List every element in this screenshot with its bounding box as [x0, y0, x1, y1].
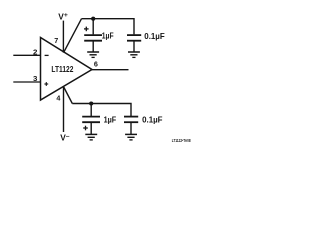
C2 ground lead	[133, 41, 135, 52]
wire: V+ bypass rail	[82, 19, 135, 35]
non-inverting input marker +	[44, 83, 48, 85]
capacitor C3 1uF plates	[82, 116, 100, 118]
node: V+ rail junction	[91, 17, 95, 21]
pin 7 wire (V+ supply pin)	[62, 21, 64, 53]
svg-text:1µF: 1µF	[104, 114, 117, 124]
C1 polarity + mark	[84, 28, 89, 30]
C4 ground lead	[130, 122, 132, 134]
wire: V- bypass rail	[72, 104, 131, 117]
wire: pin 4 diagonal down to V- rail	[64, 87, 73, 104]
pin 2 wire (inverting input)	[13, 54, 40, 56]
svg-text:7: 7	[54, 38, 58, 45]
ground symbol (C4)	[125, 133, 137, 135]
svg-text:2: 2	[33, 47, 37, 56]
capacitor C2 0.1uF plates	[127, 34, 141, 36]
capacitor C4 0.1uF plates	[124, 116, 138, 118]
pin 6 output wire	[92, 69, 129, 71]
node: V- rail junction	[89, 101, 93, 105]
op-amp U1 LT1122	[41, 38, 93, 101]
svg-text:V–: V–	[60, 133, 70, 143]
C1 ground lead	[92, 41, 94, 52]
svg-text:4: 4	[56, 95, 60, 102]
C3 polarity + mark	[83, 127, 88, 129]
C3 ground lead	[90, 122, 92, 134]
capacitor C1 1uF plates	[84, 34, 102, 36]
inverting input marker -	[45, 54, 49, 56]
svg-text:6: 6	[94, 62, 98, 69]
svg-text:3: 3	[33, 74, 37, 83]
capacitor C1 1uF lead from junction	[92, 19, 94, 35]
svg-text:0.1µF: 0.1µF	[144, 31, 164, 41]
wire: pin 7 diagonal up to V+ rail	[64, 19, 82, 53]
svg-text:LT1122•TA08: LT1122•TA08	[172, 138, 191, 143]
pin 4 wire (V- supply pin)	[63, 87, 65, 132]
capacitor C3 1uF lead from junction	[90, 104, 92, 117]
ground symbol (C3)	[85, 133, 97, 135]
pin 3 wire (non-inverting input)	[13, 81, 40, 83]
svg-text:0.1µF: 0.1µF	[142, 114, 162, 124]
ground symbol (C2)	[128, 51, 140, 53]
svg-text:LT1122: LT1122	[51, 65, 73, 74]
svg-text:1µF: 1µF	[102, 31, 114, 41]
ground symbol (C1)	[87, 51, 99, 53]
svg-text:V+: V+	[58, 11, 68, 21]
